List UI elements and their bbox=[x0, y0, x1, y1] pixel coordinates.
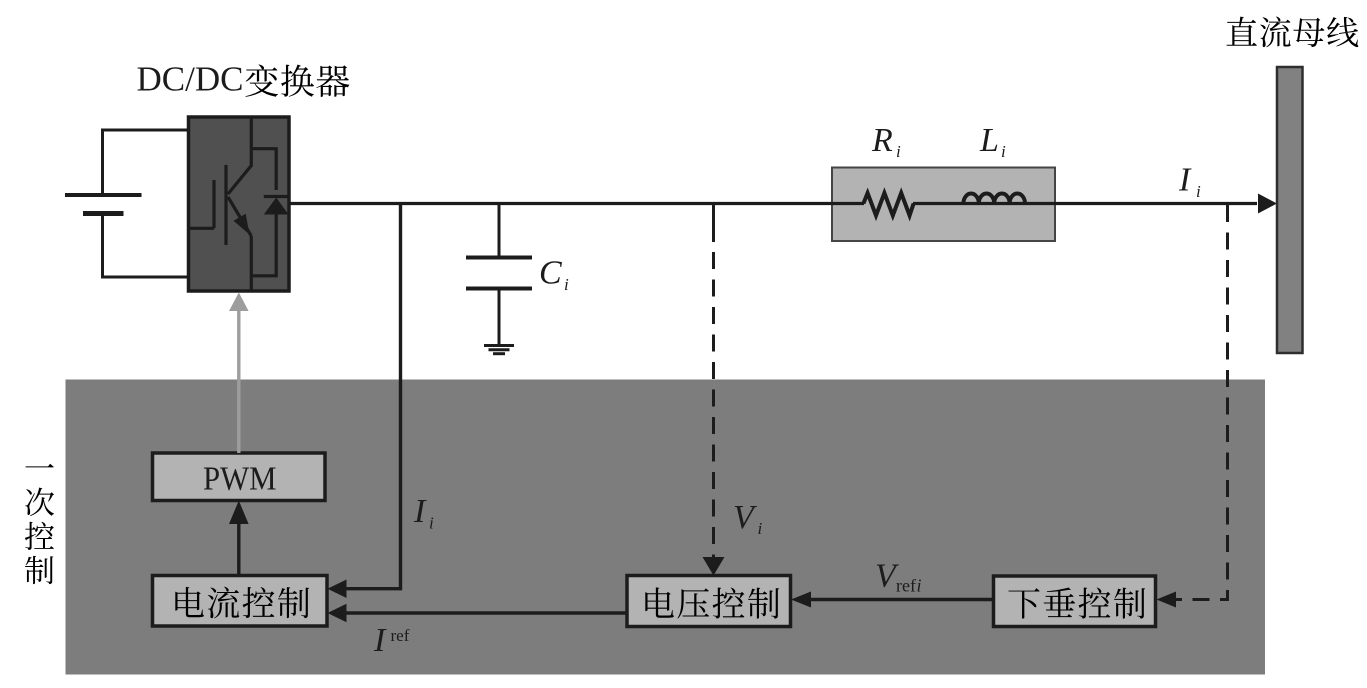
svg-text:i: i bbox=[917, 576, 922, 596]
svg-text:i: i bbox=[896, 142, 901, 161]
primary-control gray zone bbox=[66, 380, 1266, 675]
arrow current control to PWM bbox=[237, 522, 240, 576]
svg-text:ref: ref bbox=[896, 576, 916, 596]
label: DC bus title bbox=[1227, 17, 1257, 46]
svg-text:L: L bbox=[979, 122, 999, 159]
wire: battery bottom lead bbox=[103, 214, 190, 278]
IGBT Q1 emitter with arrow bbox=[228, 197, 251, 236]
arrowhead into DC bus bbox=[1258, 194, 1277, 214]
resistor Ri zigzag bbox=[863, 193, 913, 216]
diode D1 triangle bbox=[264, 198, 289, 215]
node: wire to current-feedback tap bbox=[346, 202, 401, 589]
dashed droop sense line bbox=[1176, 205, 1228, 600]
battery B1 short plate bbox=[83, 211, 124, 216]
svg-text:PWM: PWM bbox=[203, 461, 277, 498]
svg-text:I: I bbox=[1178, 162, 1192, 199]
current control block bbox=[153, 576, 328, 627]
dashed Vi sense line bbox=[712, 204, 715, 243]
battery B1 long plate bbox=[65, 193, 142, 197]
arrowhead Vi into voltage control bbox=[703, 557, 725, 576]
svg-text:DC/DC: DC/DC bbox=[137, 60, 244, 99]
capacitor Ci top plate bbox=[466, 256, 532, 260]
svg-text:i: i bbox=[1196, 182, 1201, 201]
inductor Li bbox=[963, 193, 1025, 203]
svg-text:I: I bbox=[373, 622, 387, 659]
IGBT Q1 collector lead bbox=[228, 117, 251, 194]
PWM block bbox=[153, 453, 326, 501]
svg-text:i: i bbox=[758, 519, 763, 538]
main wire from converter to resistor bbox=[289, 202, 864, 205]
capacitor Ci stem bottom bbox=[498, 289, 501, 345]
droop control block bbox=[994, 576, 1156, 627]
main wire from resistor to DC bus bbox=[913, 202, 1257, 205]
svg-text:C: C bbox=[539, 255, 562, 292]
DC/DC converter U1 box bbox=[189, 117, 290, 291]
gray gate-drive arrow PWM to converter bbox=[237, 310, 240, 453]
wire droop control to voltage control bbox=[811, 598, 994, 601]
wire: battery top lead bbox=[103, 130, 190, 195]
svg-text:i: i bbox=[429, 514, 434, 533]
wire voltage control to current control bbox=[346, 611, 627, 614]
arrowhead Ii feedback into current control bbox=[328, 580, 347, 599]
svg-text:i: i bbox=[564, 275, 569, 294]
svg-text:R: R bbox=[871, 122, 893, 159]
ground bbox=[484, 344, 514, 347]
R L line-impedance box bbox=[832, 168, 1055, 242]
arrowhead droop into droop control bbox=[1157, 592, 1177, 608]
IGBT Q1 body bar bbox=[224, 165, 227, 245]
diode D1 cathode bar bbox=[264, 195, 288, 198]
svg-text:ref: ref bbox=[391, 626, 410, 645]
label: primary control (vertical) bbox=[25, 464, 53, 468]
IGBT Q1 gate bbox=[189, 180, 215, 228]
capacitor Ci bottom plate bbox=[466, 287, 532, 291]
capacitor Ci stem top bbox=[498, 202, 501, 258]
svg-text:i: i bbox=[1001, 142, 1006, 161]
IGBT Q1 emitter lead bbox=[250, 236, 253, 291]
svg-text:I: I bbox=[413, 493, 427, 530]
diode D1 branch wire bbox=[251, 149, 276, 190]
DC bus bar bbox=[1277, 67, 1303, 353]
voltage control block bbox=[627, 576, 791, 627]
